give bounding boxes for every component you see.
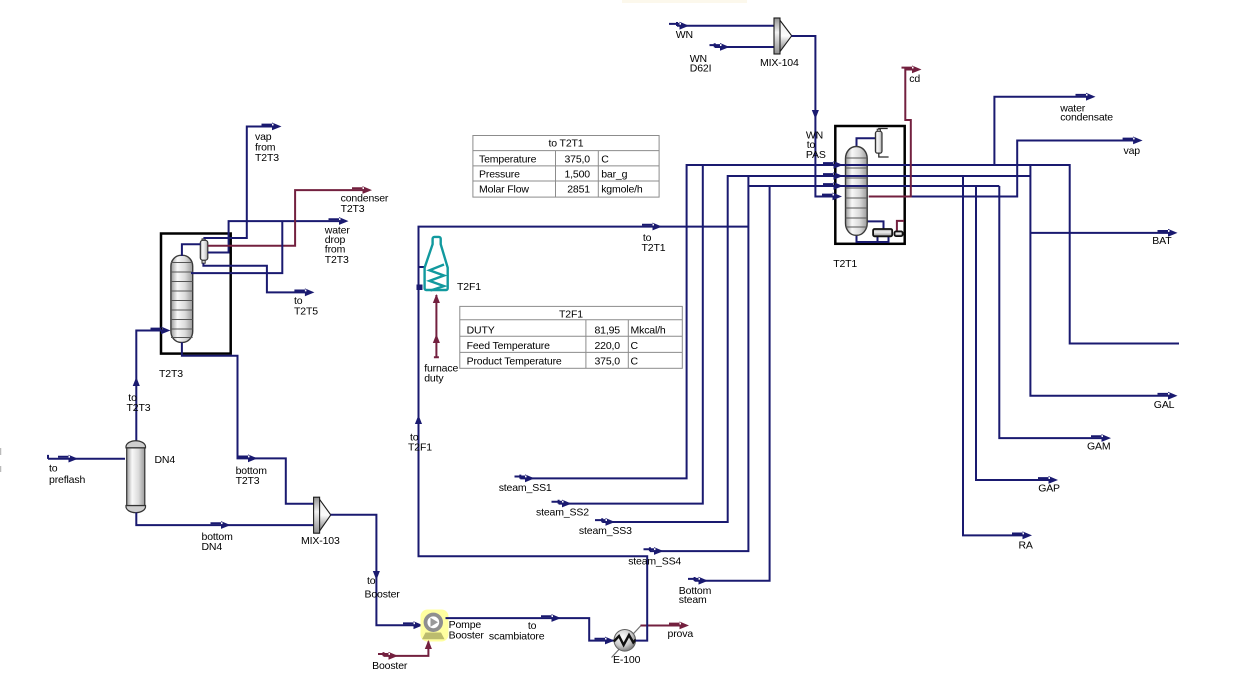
- vessel DN4: [126, 441, 146, 513]
- svg-text:DN4: DN4: [155, 454, 176, 466]
- wire start ticks: [48, 22, 715, 581]
- svg-text:steam_SS4: steam_SS4: [628, 556, 681, 568]
- wire tower-top to condenser: [182, 244, 201, 256]
- svg-text:GAM: GAM: [1087, 441, 1110, 453]
- svg-text:Product Temperature: Product Temperature: [467, 355, 562, 367]
- stream water condensate: [994, 97, 1090, 165]
- energy stream cd: [869, 70, 917, 197]
- energy stream Booster: [384, 642, 429, 656]
- column tower T2T3: [171, 255, 193, 342]
- svg-text:vap: vap: [1124, 145, 1141, 157]
- svg-text:to T2T1: to T2T1: [549, 138, 584, 150]
- svg-text:prova: prova: [668, 628, 694, 640]
- svg-text:WN: WN: [676, 29, 693, 41]
- condenser vessel T2T3: [200, 239, 208, 263]
- svg-text:to: to: [367, 575, 376, 587]
- table T2F1: [460, 306, 683, 368]
- wire L3 product draw: [748, 185, 999, 187]
- svg-text:cd: cd: [909, 73, 920, 85]
- svg-text:C: C: [631, 340, 639, 352]
- subflowsheet boundary T2T3: [161, 234, 231, 354]
- pump Pompe Booster: [421, 610, 449, 642]
- svg-text:375,0: 375,0: [594, 355, 620, 367]
- stream vap from T2T3: [203, 127, 276, 239]
- furnace T2F1: [425, 237, 448, 291]
- svg-text:steam: steam: [679, 594, 707, 606]
- svg-text:Booster: Booster: [365, 589, 401, 601]
- column tower T2T1: [846, 147, 868, 236]
- svg-text:C: C: [631, 355, 639, 367]
- stream to T2T3 (from DN4 top): [136, 331, 168, 442]
- svg-text:T2T3: T2T3: [255, 152, 279, 164]
- svg-text:D62I: D62I: [690, 63, 712, 75]
- svg-text:T2T3: T2T3: [127, 402, 151, 414]
- svg-text:GAL: GAL: [1154, 399, 1175, 411]
- svg-text:Booster: Booster: [449, 630, 485, 642]
- reboiler T2T1: [873, 229, 905, 236]
- svg-text:GAP: GAP: [1038, 483, 1060, 495]
- stream to T2T5: [203, 263, 309, 292]
- arrow to T2T1 (mid): [642, 223, 662, 231]
- svg-text:kgmole/h: kgmole/h: [601, 184, 643, 196]
- svg-text:T2T1: T2T1: [642, 242, 666, 254]
- svg-text:DN4: DN4: [202, 541, 223, 553]
- stream WN to PAS: [792, 36, 837, 197]
- stream to Booster (MIX-103 out): [331, 515, 420, 626]
- stream GAP: [976, 186, 1053, 480]
- stream water drop from T2T3: [208, 221, 344, 252]
- wire E-100 to furnace loop: [419, 227, 750, 641]
- svg-text:preflash: preflash: [49, 474, 85, 486]
- svg-text:condensate: condensate: [1060, 112, 1113, 124]
- stream steam_SS4: [650, 176, 749, 551]
- svg-text:1,500: 1,500: [564, 169, 590, 181]
- svg-text:81,95: 81,95: [594, 324, 620, 336]
- wire tower bottoms T2T1: [857, 235, 889, 242]
- svg-text:DUTY: DUTY: [467, 324, 495, 336]
- energy stream prova: [641, 625, 685, 627]
- svg-text:T2F1: T2F1: [559, 308, 583, 320]
- svg-text:220,0: 220,0: [594, 340, 620, 352]
- table to T2T1: [473, 136, 659, 198]
- mixer MIX-103: [314, 497, 331, 533]
- svg-text:MIX-103: MIX-103: [301, 535, 340, 547]
- svg-text:T2T5: T2T5: [294, 306, 318, 318]
- stream WN: [677, 25, 774, 27]
- svg-text:MIX-104: MIX-104: [760, 57, 799, 69]
- subflowsheet boundary T2T1: [835, 126, 904, 244]
- svg-text:T2T1: T2T1: [833, 258, 857, 270]
- stream bottom DN4: [136, 513, 313, 526]
- svg-text:bar_g: bar_g: [601, 169, 627, 181]
- svg-text:PAS: PAS: [806, 149, 826, 161]
- energy stream condenser T2T3: [208, 190, 366, 246]
- arrows into T2T1 left edge: [823, 161, 843, 169]
- wire vap product (right of boundary): [905, 141, 1137, 197]
- wire condenser bottom T2T1: [879, 153, 889, 157]
- svg-text:Feed Temperature: Feed Temperature: [467, 340, 551, 352]
- mixer MIX-104: [774, 18, 792, 54]
- svg-text:T2F1: T2F1: [408, 442, 432, 454]
- wire condenser top T2T1: [879, 129, 888, 132]
- energy wire reboiler duty: [897, 221, 904, 232]
- svg-text:E-100: E-100: [613, 654, 641, 666]
- svg-text:steam_SS3: steam_SS3: [579, 525, 632, 537]
- wire water draw from tower: [191, 221, 282, 273]
- svg-text:C: C: [601, 154, 609, 166]
- stream Bottom steam: [695, 186, 770, 581]
- stream BAT: [1030, 165, 1172, 396]
- svg-text:Mkcal/h: Mkcal/h: [631, 324, 666, 336]
- stream steam_SS2: [559, 165, 703, 504]
- svg-text:BAT: BAT: [1152, 235, 1172, 247]
- stream steam_SS1: [520, 165, 1179, 478]
- wire reboiler feed T2T1: [867, 221, 883, 229]
- svg-text:T2F1: T2F1: [457, 281, 481, 293]
- svg-text:T2T3: T2T3: [341, 203, 365, 215]
- stream steam_SS3: [602, 176, 1030, 522]
- svg-text:Booster: Booster: [372, 660, 408, 672]
- stream GAL: [1158, 392, 1178, 400]
- svg-text:scambiatore: scambiatore: [489, 631, 545, 643]
- energy stream furnace duty: [435, 295, 437, 357]
- svg-text:T2T3: T2T3: [236, 475, 260, 487]
- stream to scambiatore (pump out): [446, 618, 616, 641]
- wire furnace inlet stub: [419, 266, 426, 268]
- svg-text:steam_SS2: steam_SS2: [536, 507, 589, 519]
- svg-text:duty: duty: [424, 373, 444, 385]
- stream RA: [963, 176, 1027, 535]
- svg-text:T2T3: T2T3: [159, 368, 183, 380]
- svg-text:RA: RA: [1019, 540, 1033, 552]
- svg-text:Molar Flow: Molar Flow: [479, 184, 529, 196]
- svg-text:2851: 2851: [567, 184, 590, 196]
- stream bottom T2T3: [182, 342, 314, 503]
- stream to preflash: [48, 458, 125, 460]
- stream GAM: [999, 186, 1106, 438]
- wire tower-top link T2T1: [857, 138, 876, 146]
- svg-text:Pressure: Pressure: [479, 169, 520, 181]
- condenser vessel T2T1: [875, 129, 882, 153]
- svg-text:to: to: [49, 463, 58, 475]
- node furnace outlet dot: [417, 285, 423, 291]
- svg-text:T2T3: T2T3: [325, 254, 349, 266]
- arrow to T2F1 (up): [415, 415, 422, 424]
- svg-text:Temperature: Temperature: [479, 154, 537, 166]
- stream WN D62I: [715, 46, 774, 48]
- svg-text:steam_SS1: steam_SS1: [499, 482, 552, 494]
- heat exchanger E-100: [612, 626, 642, 658]
- svg-text:375,0: 375,0: [564, 154, 590, 166]
